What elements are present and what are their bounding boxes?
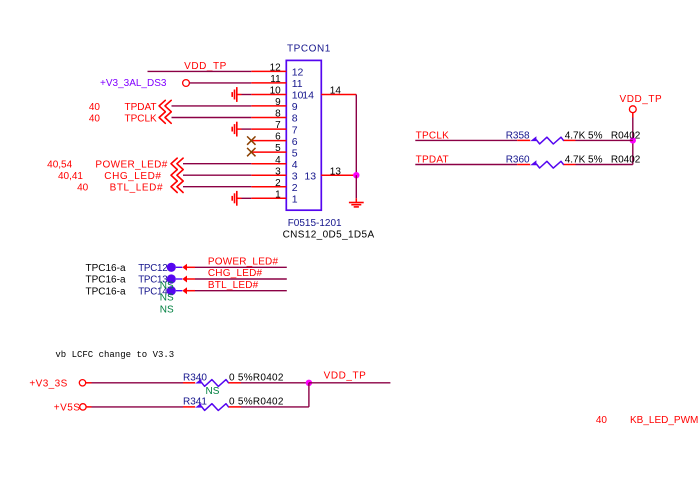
svg-text:10: 10 [270, 86, 282, 97]
svg-text:4.7K 5%: 4.7K 5% [565, 130, 603, 141]
svg-text:+V5S: +V5S [54, 403, 81, 414]
svg-text:6: 6 [275, 132, 281, 143]
svg-text:KB_LED_PWM: KB_LED_PWM [630, 415, 698, 426]
svg-text:4: 4 [275, 155, 281, 166]
svg-text:R340: R340 [183, 372, 207, 383]
svg-text:NS: NS [160, 304, 174, 315]
svg-text:2: 2 [292, 182, 298, 194]
svg-text:TPC16-a: TPC16-a [86, 275, 126, 286]
svg-text:1: 1 [292, 194, 298, 206]
svg-text:7: 7 [275, 120, 281, 131]
svg-text:TPC12: TPC12 [138, 263, 167, 274]
svg-text:BTL_LED#: BTL_LED# [208, 280, 259, 291]
svg-text:CNS12_0D5_1D5A: CNS12_0D5_1D5A [283, 230, 375, 241]
svg-text:TPDAT: TPDAT [125, 102, 157, 113]
svg-text:14: 14 [302, 90, 314, 102]
svg-text:4.7K 5%: 4.7K 5% [565, 154, 603, 165]
svg-text:8: 8 [275, 109, 281, 120]
svg-text:POWER_LED#: POWER_LED# [208, 257, 279, 268]
svg-text:TPDAT: TPDAT [416, 154, 449, 165]
svg-text:VDD_TP: VDD_TP [184, 61, 227, 72]
svg-text:3: 3 [275, 166, 281, 177]
svg-text:7: 7 [292, 124, 298, 136]
svg-text:0 5%R0402: 0 5%R0402 [229, 372, 284, 383]
svg-text:40: 40 [77, 183, 89, 194]
svg-text:BTL_LED#: BTL_LED# [110, 183, 163, 194]
svg-text:NS: NS [160, 280, 174, 291]
svg-text:2: 2 [275, 178, 281, 189]
svg-text:40: 40 [89, 102, 101, 113]
svg-text:TPCLK: TPCLK [416, 130, 450, 141]
svg-text:NS: NS [206, 386, 220, 397]
svg-text:4: 4 [292, 159, 298, 171]
svg-text:POWER_LED#: POWER_LED# [95, 160, 167, 171]
svg-text:R358: R358 [506, 130, 530, 141]
svg-text:40,41: 40,41 [58, 171, 83, 182]
svg-text:R0402: R0402 [611, 130, 641, 141]
svg-text:TPC16-a: TPC16-a [86, 286, 126, 297]
svg-text:R360: R360 [506, 154, 530, 165]
svg-text:+V3_3AL_DS3: +V3_3AL_DS3 [100, 78, 167, 89]
svg-text:NS: NS [160, 293, 174, 304]
svg-text:VDD_TP: VDD_TP [324, 370, 367, 381]
svg-text:13: 13 [330, 166, 342, 177]
svg-text:40: 40 [596, 415, 608, 426]
svg-text:F0515-1201: F0515-1201 [288, 218, 342, 229]
svg-text:12: 12 [292, 67, 304, 79]
svg-text:40,54: 40,54 [47, 160, 72, 171]
svg-text:TPC16-a: TPC16-a [86, 263, 126, 274]
svg-text:40: 40 [89, 113, 101, 124]
svg-text:+V3_3S: +V3_3S [29, 378, 67, 389]
svg-text:TPCON1: TPCON1 [287, 44, 331, 55]
svg-text:CHG_LED#: CHG_LED# [104, 171, 161, 182]
svg-text:3: 3 [292, 170, 298, 182]
svg-text:5: 5 [275, 143, 281, 154]
svg-text:TPCLK: TPCLK [125, 113, 158, 124]
svg-text:9: 9 [275, 97, 281, 108]
svg-text:8: 8 [292, 113, 298, 125]
svg-text:VDD_TP: VDD_TP [620, 94, 663, 105]
svg-text:5: 5 [292, 147, 298, 159]
svg-text:11: 11 [270, 74, 281, 85]
svg-text:14: 14 [330, 86, 342, 97]
svg-text:R0402: R0402 [611, 154, 641, 165]
svg-text:CHG_LED#: CHG_LED# [208, 268, 263, 279]
svg-text:0 5%R0402: 0 5%R0402 [229, 396, 284, 407]
svg-text:11: 11 [292, 78, 303, 90]
svg-text:6: 6 [292, 136, 298, 148]
svg-text:12: 12 [270, 63, 282, 74]
svg-text:R341: R341 [183, 396, 207, 407]
svg-text:1: 1 [275, 189, 281, 200]
svg-text:9: 9 [292, 101, 298, 113]
svg-text:vb LCFC change to V3.3: vb LCFC change to V3.3 [55, 350, 174, 360]
svg-text:13: 13 [304, 170, 316, 182]
